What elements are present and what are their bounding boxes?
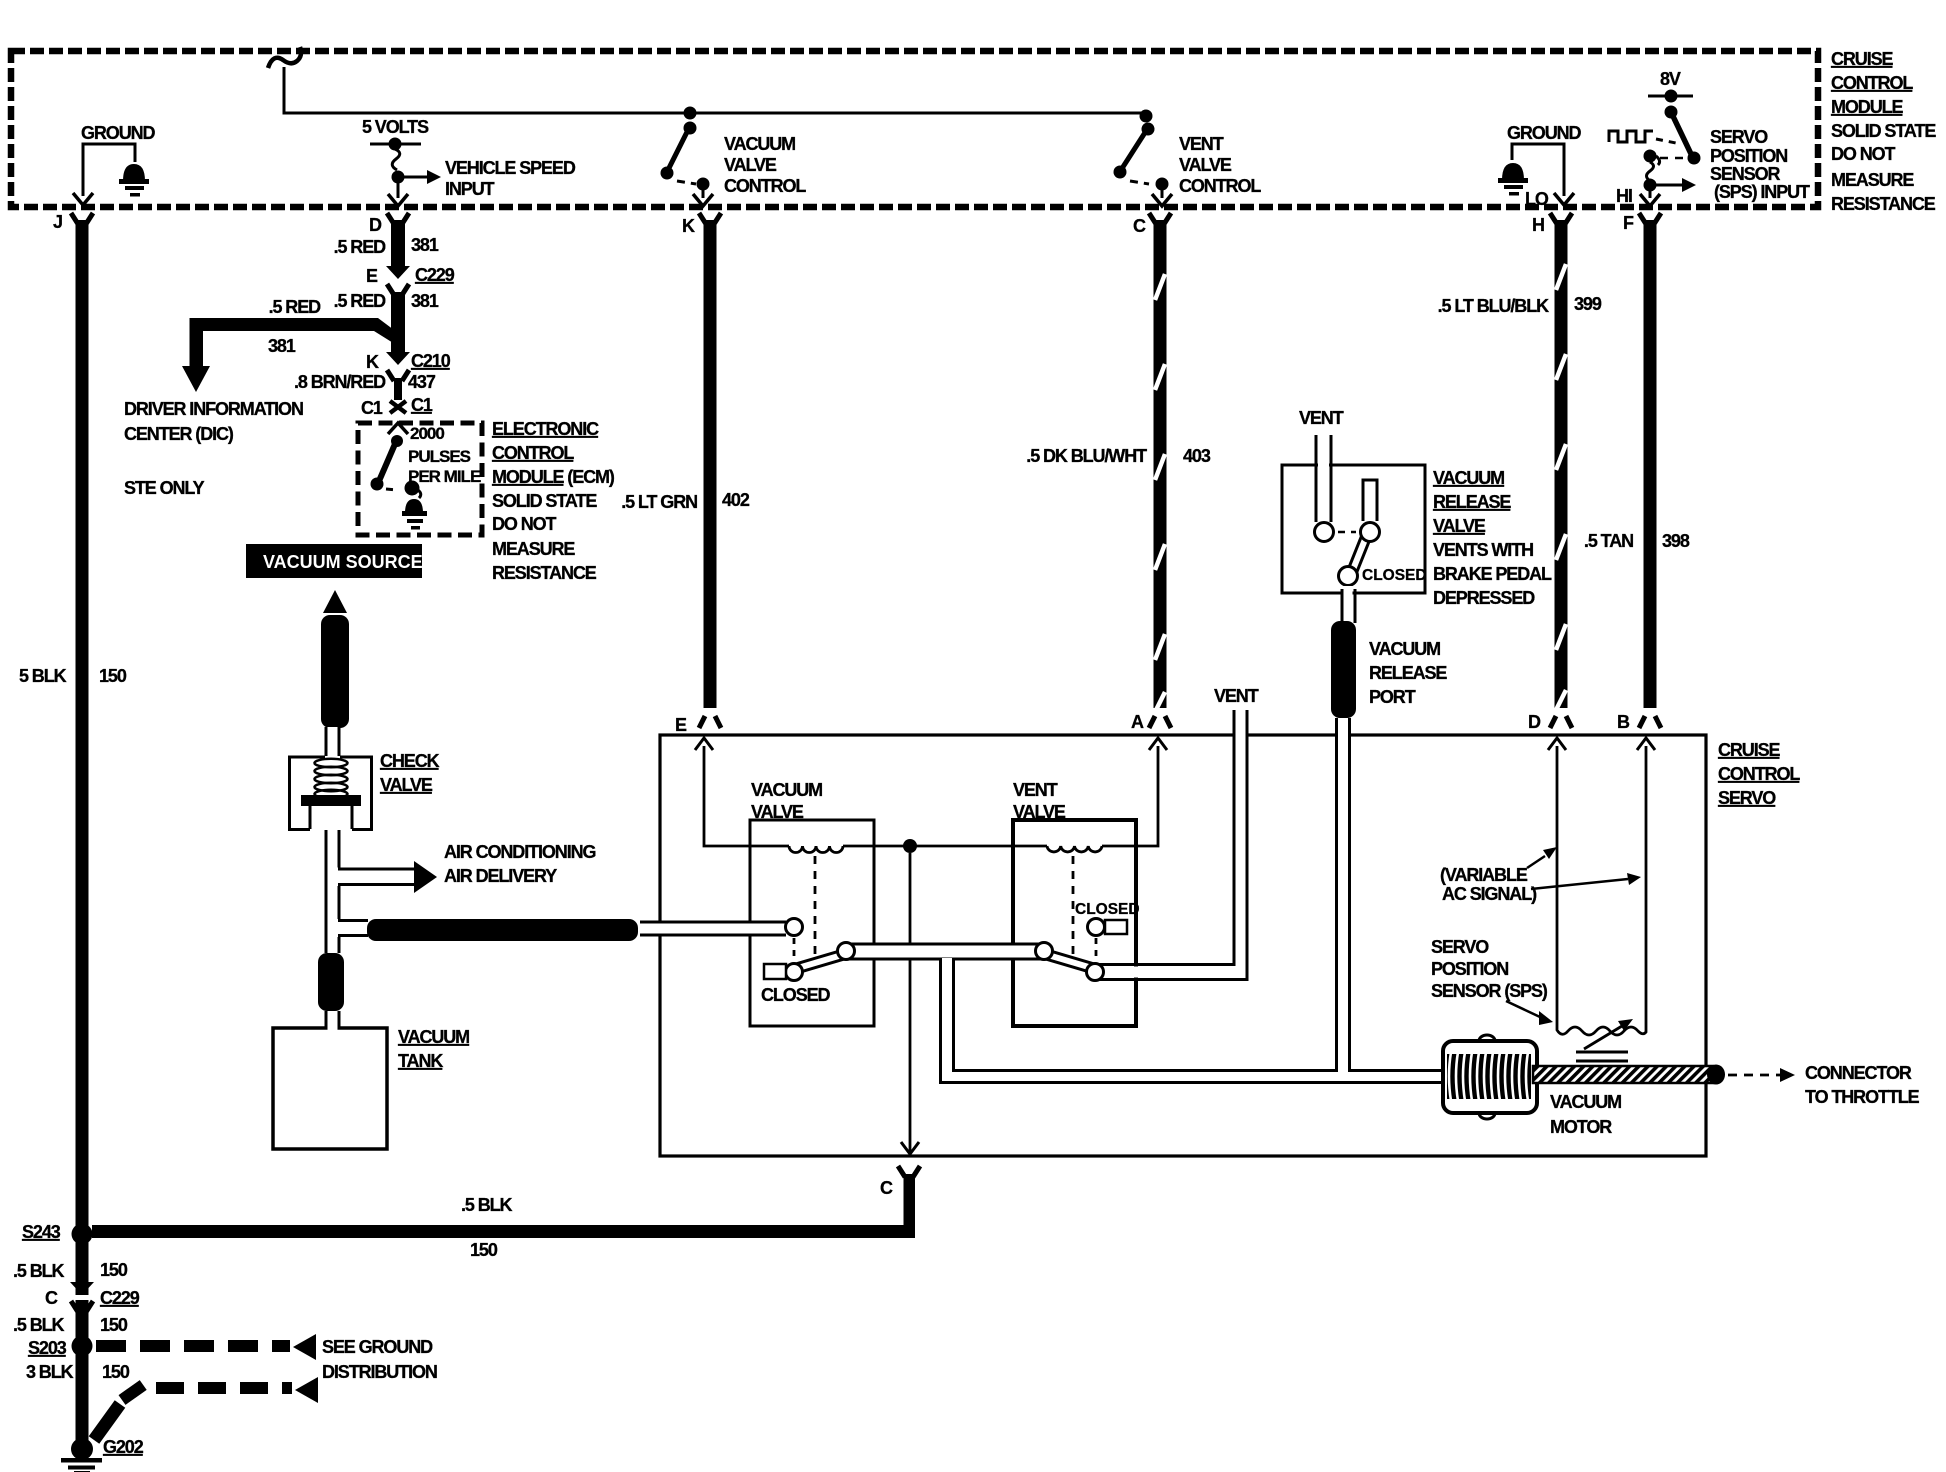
svg-text:VALVE: VALVE bbox=[724, 155, 777, 175]
svg-text:RELEASE: RELEASE bbox=[1369, 663, 1447, 683]
svg-text:CHECK: CHECK bbox=[380, 751, 440, 771]
svg-text:(VARIABLE: (VARIABLE bbox=[1440, 865, 1528, 885]
wire F .5 TAN 398 bbox=[1644, 220, 1657, 708]
svg-text:DISTRIBUTION: DISTRIBUTION bbox=[322, 1362, 437, 1382]
svg-text:VEHICLE SPEED: VEHICLE SPEED bbox=[445, 158, 576, 178]
svg-text:GROUND: GROUND bbox=[81, 123, 155, 143]
svg-text:CONNECTOR: CONNECTOR bbox=[1805, 1063, 1912, 1083]
svg-text:GROUND: GROUND bbox=[1507, 123, 1581, 143]
svg-text:CLOSED: CLOSED bbox=[761, 985, 831, 1005]
svg-text:D: D bbox=[369, 215, 382, 235]
electronic control module dashed box bbox=[358, 423, 482, 535]
svg-text:ELECTRONIC: ELECTRONIC bbox=[492, 419, 599, 439]
svg-text:S203: S203 bbox=[28, 1338, 67, 1358]
vacuum valve plunger dashed stem bbox=[814, 856, 817, 962]
pipe release valve to hose bbox=[1342, 586, 1355, 625]
svg-text:VALVE: VALVE bbox=[1013, 802, 1066, 822]
check valve box bbox=[290, 757, 372, 830]
svg-text:VALVE: VALVE bbox=[751, 802, 804, 822]
svg-text:MEASURE: MEASURE bbox=[1831, 170, 1914, 190]
svg-text:F: F bbox=[1623, 213, 1634, 233]
svg-text:SERVO: SERVO bbox=[1710, 127, 1768, 147]
svg-text:CONTROL: CONTROL bbox=[1718, 764, 1800, 784]
terminal A connector (servo) bbox=[1149, 716, 1171, 728]
vacuum tank box bbox=[273, 1028, 387, 1149]
vacuum release valve label bbox=[1433, 468, 1552, 608]
svg-text:.5 RED: .5 RED bbox=[334, 237, 387, 257]
svg-text:POSITION: POSITION bbox=[1710, 146, 1787, 166]
svg-text:VACUUM SOURCE: VACUUM SOURCE bbox=[263, 552, 423, 572]
dashed wire to ground distribution (from S203) bbox=[96, 1334, 437, 1382]
svg-text:CLOSED: CLOSED bbox=[1362, 567, 1427, 584]
vent valve box bbox=[1013, 820, 1136, 1026]
wire J .5 BLK 150 (left ground wire) bbox=[76, 220, 89, 1443]
terminal E connector (servo) bbox=[699, 716, 721, 728]
svg-text:VACUUM: VACUUM bbox=[1433, 468, 1504, 488]
release valve plunger bbox=[1315, 523, 1427, 586]
svg-text:.5 RED: .5 RED bbox=[269, 297, 322, 317]
svg-text:TO THROTTLE: TO THROTTLE bbox=[1805, 1087, 1920, 1107]
connector C229 (lower) bbox=[45, 1282, 140, 1312]
wire C .5 DK BLU/WHT 403 bbox=[1154, 220, 1167, 708]
svg-text:VACUUM: VACUUM bbox=[1369, 639, 1440, 659]
cruise control servo label bbox=[1718, 740, 1800, 808]
svg-text:SOLID STATE: SOLID STATE bbox=[1831, 121, 1936, 141]
wire coil to junction bbox=[843, 845, 1047, 848]
vacuum valve plunger bbox=[761, 919, 855, 1006]
svg-text:VENT: VENT bbox=[1299, 408, 1344, 428]
variable AC signal label bbox=[1440, 847, 1641, 904]
terminal K connector (vacuum valve control) bbox=[682, 213, 721, 236]
svg-text:(SPS) INPUT: (SPS) INPUT bbox=[1714, 182, 1810, 202]
svg-text:LO: LO bbox=[1525, 189, 1549, 209]
svg-text:TANK: TANK bbox=[398, 1051, 443, 1071]
junction node bbox=[903, 839, 917, 853]
svg-text:H: H bbox=[1532, 215, 1544, 235]
servo position sensor label bbox=[1431, 937, 1553, 1025]
svg-text:C1: C1 bbox=[411, 395, 433, 415]
svg-text:CONTROL: CONTROL bbox=[1831, 73, 1913, 93]
svg-text:VENTS WITH: VENTS WITH bbox=[1433, 540, 1533, 560]
vent valve control switch bbox=[1114, 110, 1262, 207]
vacuum source arrow bbox=[323, 590, 347, 613]
svg-text:C: C bbox=[1133, 216, 1146, 236]
vacuum valve coil bbox=[789, 846, 843, 853]
svg-text:MEASURE: MEASURE bbox=[492, 539, 575, 559]
svg-text:C: C bbox=[45, 1288, 58, 1308]
svg-text:437: 437 bbox=[408, 372, 436, 392]
svg-text:381: 381 bbox=[411, 235, 439, 255]
svg-text:DEPRESSED: DEPRESSED bbox=[1433, 588, 1535, 608]
splice wire .5 BLK 150 (S243 to servo C) bbox=[92, 1225, 915, 1238]
SPS element in servo bbox=[1548, 738, 1655, 1061]
svg-text:2000: 2000 bbox=[410, 424, 444, 443]
wire E arrow into servo bbox=[695, 738, 789, 846]
pipe from tank tee to servo (into vacuum valve) bbox=[640, 922, 786, 935]
svg-text:8V: 8V bbox=[1660, 69, 1681, 89]
svg-text:C229: C229 bbox=[415, 265, 455, 285]
dashed wire to ground distribution (lower) bbox=[122, 1377, 318, 1403]
svg-text:INPUT: INPUT bbox=[445, 179, 495, 199]
vent valve plunger bbox=[1036, 901, 1140, 981]
svg-text:SENSOR (SPS): SENSOR (SPS) bbox=[1431, 981, 1548, 1001]
wire E-K .5 RED 381 bbox=[391, 292, 405, 356]
svg-text:5 VOLTS: 5 VOLTS bbox=[362, 117, 429, 137]
vacuum release port hose bbox=[1331, 621, 1356, 718]
svg-text:PORT: PORT bbox=[1369, 687, 1416, 707]
servo position sensor input (module, pin F HI) bbox=[1609, 69, 1810, 206]
check valve seat bbox=[310, 806, 352, 829]
diagonal wire to ground G202 bbox=[94, 1404, 120, 1440]
svg-text:CONTROL: CONTROL bbox=[724, 176, 806, 196]
svg-text:402: 402 bbox=[722, 490, 750, 510]
valve middle pipe bbox=[846, 944, 1044, 959]
vent valve coil bbox=[1047, 846, 1102, 852]
ECM 2000 pulses per mile switch bbox=[371, 423, 481, 530]
ground symbol (module right, pin H LO) bbox=[1498, 123, 1581, 209]
wire K .5 LT GRN 402 bbox=[704, 220, 717, 708]
svg-text:150: 150 bbox=[99, 666, 127, 686]
svg-text:VENT: VENT bbox=[1214, 686, 1259, 706]
svg-text:DRIVER INFORMATION: DRIVER INFORMATION bbox=[124, 399, 303, 419]
terminal B connector (servo) bbox=[1639, 716, 1661, 728]
wire K-C1 .8 BRN/RED 437 bbox=[394, 378, 402, 400]
svg-text:SEE GROUND: SEE GROUND bbox=[322, 1337, 433, 1357]
svg-text:C: C bbox=[880, 1178, 893, 1198]
svg-text:HI: HI bbox=[1616, 186, 1632, 206]
electronic control module label bbox=[492, 419, 615, 583]
vent pipe into release valve bbox=[1299, 408, 1344, 522]
svg-text:.5 BLK: .5 BLK bbox=[13, 1315, 65, 1335]
svg-text:VACUUM: VACUUM bbox=[724, 134, 795, 154]
connector C229 (pin E) bbox=[366, 265, 455, 295]
svg-text:150: 150 bbox=[470, 1240, 498, 1260]
svg-text:RELEASE: RELEASE bbox=[1433, 492, 1511, 512]
branch stub to servo hose bbox=[338, 921, 368, 936]
svg-text:A: A bbox=[1131, 712, 1144, 732]
svg-text:RESISTANCE: RESISTANCE bbox=[492, 563, 597, 583]
svg-text:MODULE: MODULE bbox=[1831, 97, 1903, 117]
svg-text:.5 BLK: .5 BLK bbox=[461, 1195, 513, 1215]
svg-text:VALVE: VALVE bbox=[1179, 155, 1232, 175]
splice S243 bbox=[22, 1222, 93, 1245]
svg-text:CENTER (DIC): CENTER (DIC) bbox=[124, 424, 234, 444]
svg-text:3 BLK: 3 BLK bbox=[26, 1362, 74, 1382]
wire H .5 LT BLU/BLK 399 bbox=[1555, 220, 1568, 708]
connector C210 (pin K) bbox=[366, 351, 451, 381]
pipe below check valve bbox=[326, 830, 339, 953]
svg-text:CRUISE: CRUISE bbox=[1831, 49, 1894, 69]
vacuum release port label bbox=[1369, 639, 1447, 707]
wire C to splice bar bbox=[904, 1174, 916, 1225]
svg-text:CLOSED: CLOSED bbox=[1075, 901, 1140, 918]
vacuum valve control switch bbox=[661, 107, 807, 207]
svg-text:150: 150 bbox=[100, 1260, 128, 1280]
wire D .5 RED 381 bbox=[391, 220, 405, 270]
wire A arrow into servo bbox=[1102, 738, 1167, 846]
svg-text:PER MILE: PER MILE bbox=[408, 467, 481, 486]
svg-text:150: 150 bbox=[100, 1315, 128, 1335]
svg-text:MOTOR: MOTOR bbox=[1550, 1117, 1612, 1137]
svg-text:K: K bbox=[682, 216, 695, 236]
driver information center label bbox=[124, 399, 303, 498]
vacuum release valve box bbox=[1282, 465, 1425, 593]
5 volts vehicle speed source bbox=[362, 117, 576, 206]
svg-text:E: E bbox=[366, 266, 378, 286]
connector C1 bbox=[361, 395, 433, 418]
svg-text:SERVO: SERVO bbox=[1431, 937, 1489, 957]
vent pipe from vent valve (inside servo) bbox=[1099, 686, 1259, 980]
svg-text:G202: G202 bbox=[103, 1437, 144, 1457]
svg-text:.5 RED: .5 RED bbox=[334, 291, 387, 311]
svg-text:VACUUM: VACUUM bbox=[1550, 1092, 1621, 1112]
svg-text:K: K bbox=[366, 352, 379, 372]
ground G202 bbox=[61, 1437, 144, 1472]
svg-text:VENT: VENT bbox=[1179, 134, 1224, 154]
svg-text:399: 399 bbox=[1574, 294, 1602, 314]
svg-text:.5 DK BLU/WHT: .5 DK BLU/WHT bbox=[1026, 446, 1147, 466]
pipe down to vacuum motor run bbox=[941, 958, 1448, 1083]
svg-text:CONTROL: CONTROL bbox=[492, 443, 574, 463]
svg-text:CRUISE: CRUISE bbox=[1718, 740, 1781, 760]
svg-text:AIR DELIVERY: AIR DELIVERY bbox=[444, 866, 557, 886]
vacuum valve box bbox=[750, 820, 874, 1026]
svg-text:SERVO: SERVO bbox=[1718, 788, 1776, 808]
hose below branch bbox=[318, 953, 344, 1011]
cruise control module label bbox=[1831, 49, 1936, 214]
terminal C connector (servo bottom) bbox=[880, 1166, 920, 1198]
svg-text:STE ONLY: STE ONLY bbox=[124, 478, 205, 498]
branch wire .5 RED 381 to DIC bbox=[182, 297, 398, 392]
vent valve plunger dashed stem bbox=[1072, 856, 1075, 958]
svg-text:VACUUM: VACUUM bbox=[398, 1027, 469, 1047]
check valve plate bbox=[301, 795, 361, 806]
svg-text:VENT: VENT bbox=[1013, 780, 1058, 800]
vacuum motor bbox=[1443, 1035, 1621, 1137]
svg-text:AC SIGNAL): AC SIGNAL) bbox=[1442, 884, 1537, 904]
terminal D connector bbox=[369, 213, 409, 235]
svg-text:381: 381 bbox=[268, 336, 296, 356]
release port pipe into servo bbox=[1337, 718, 1350, 1072]
svg-text:DO NOT: DO NOT bbox=[1831, 144, 1896, 164]
svg-text:VACUUM: VACUUM bbox=[751, 780, 822, 800]
vacuum source hose bbox=[321, 615, 349, 728]
svg-text:E: E bbox=[675, 715, 687, 735]
svg-text:VALVE: VALVE bbox=[380, 775, 433, 795]
svg-text:B: B bbox=[1617, 712, 1630, 732]
terminal F connector (SPS HI) bbox=[1623, 213, 1661, 233]
svg-text:5 BLK: 5 BLK bbox=[19, 666, 67, 686]
svg-text:.5 TAN: .5 TAN bbox=[1584, 531, 1633, 551]
pipe into vacuum tank bbox=[326, 1011, 339, 1031]
svg-text:.8 BRN/RED: .8 BRN/RED bbox=[294, 372, 386, 392]
svg-text:150: 150 bbox=[102, 1362, 130, 1382]
svg-text:AIR CONDITIONING: AIR CONDITIONING bbox=[444, 842, 595, 862]
svg-text:C210: C210 bbox=[411, 351, 451, 371]
supply wire to valve control switches bbox=[268, 47, 1146, 113]
svg-text:381: 381 bbox=[411, 291, 439, 311]
svg-text:C1: C1 bbox=[361, 398, 383, 418]
svg-text:MODULE (ECM): MODULE (ECM) bbox=[492, 467, 615, 487]
svg-text:DO NOT: DO NOT bbox=[492, 514, 557, 534]
terminal D connector (servo) bbox=[1550, 716, 1572, 728]
svg-text:VALVE: VALVE bbox=[1433, 516, 1486, 536]
check valve spring bbox=[315, 759, 348, 798]
air conditioning branch pipe bbox=[338, 842, 595, 893]
svg-text:RESISTANCE: RESISTANCE bbox=[1831, 194, 1936, 214]
svg-text:.5 LT GRN: .5 LT GRN bbox=[621, 492, 697, 512]
actuator rod to throttle bbox=[1533, 1063, 1920, 1107]
release valve plunger slot bbox=[1363, 480, 1377, 521]
ground symbol (module left, pin J) bbox=[73, 123, 155, 205]
svg-text:D: D bbox=[1528, 712, 1541, 732]
svg-text:.5 LT BLU/BLK: .5 LT BLU/BLK bbox=[1438, 296, 1549, 316]
svg-text:398: 398 bbox=[1662, 531, 1690, 551]
wire junction to terminal C bbox=[901, 853, 919, 1154]
svg-text:403: 403 bbox=[1183, 446, 1211, 466]
svg-text:J: J bbox=[53, 212, 62, 232]
svg-text:PULSES: PULSES bbox=[408, 447, 471, 466]
svg-text:C229: C229 bbox=[100, 1288, 140, 1308]
splice S203 bbox=[28, 1336, 93, 1359]
svg-text:SENSOR: SENSOR bbox=[1710, 164, 1781, 184]
cruise control module dashed box bbox=[11, 51, 1818, 207]
svg-text:CONTROL: CONTROL bbox=[1179, 176, 1261, 196]
svg-text:BRAKE PEDAL: BRAKE PEDAL bbox=[1433, 564, 1552, 584]
vacuum source box bbox=[246, 544, 423, 578]
terminal H connector (ground LO) bbox=[1532, 213, 1572, 235]
svg-text:.5 BLK: .5 BLK bbox=[13, 1261, 65, 1281]
svg-text:SOLID STATE: SOLID STATE bbox=[492, 491, 597, 511]
terminal C connector (vent valve control) bbox=[1133, 213, 1171, 236]
svg-text:POSITION: POSITION bbox=[1431, 959, 1508, 979]
svg-text:S243: S243 bbox=[22, 1222, 61, 1242]
hose from tee to servo bbox=[367, 919, 638, 941]
pipe from source into check valve bbox=[326, 727, 339, 757]
terminal J connector bbox=[53, 212, 93, 232]
cruise control servo box bbox=[660, 735, 1706, 1156]
